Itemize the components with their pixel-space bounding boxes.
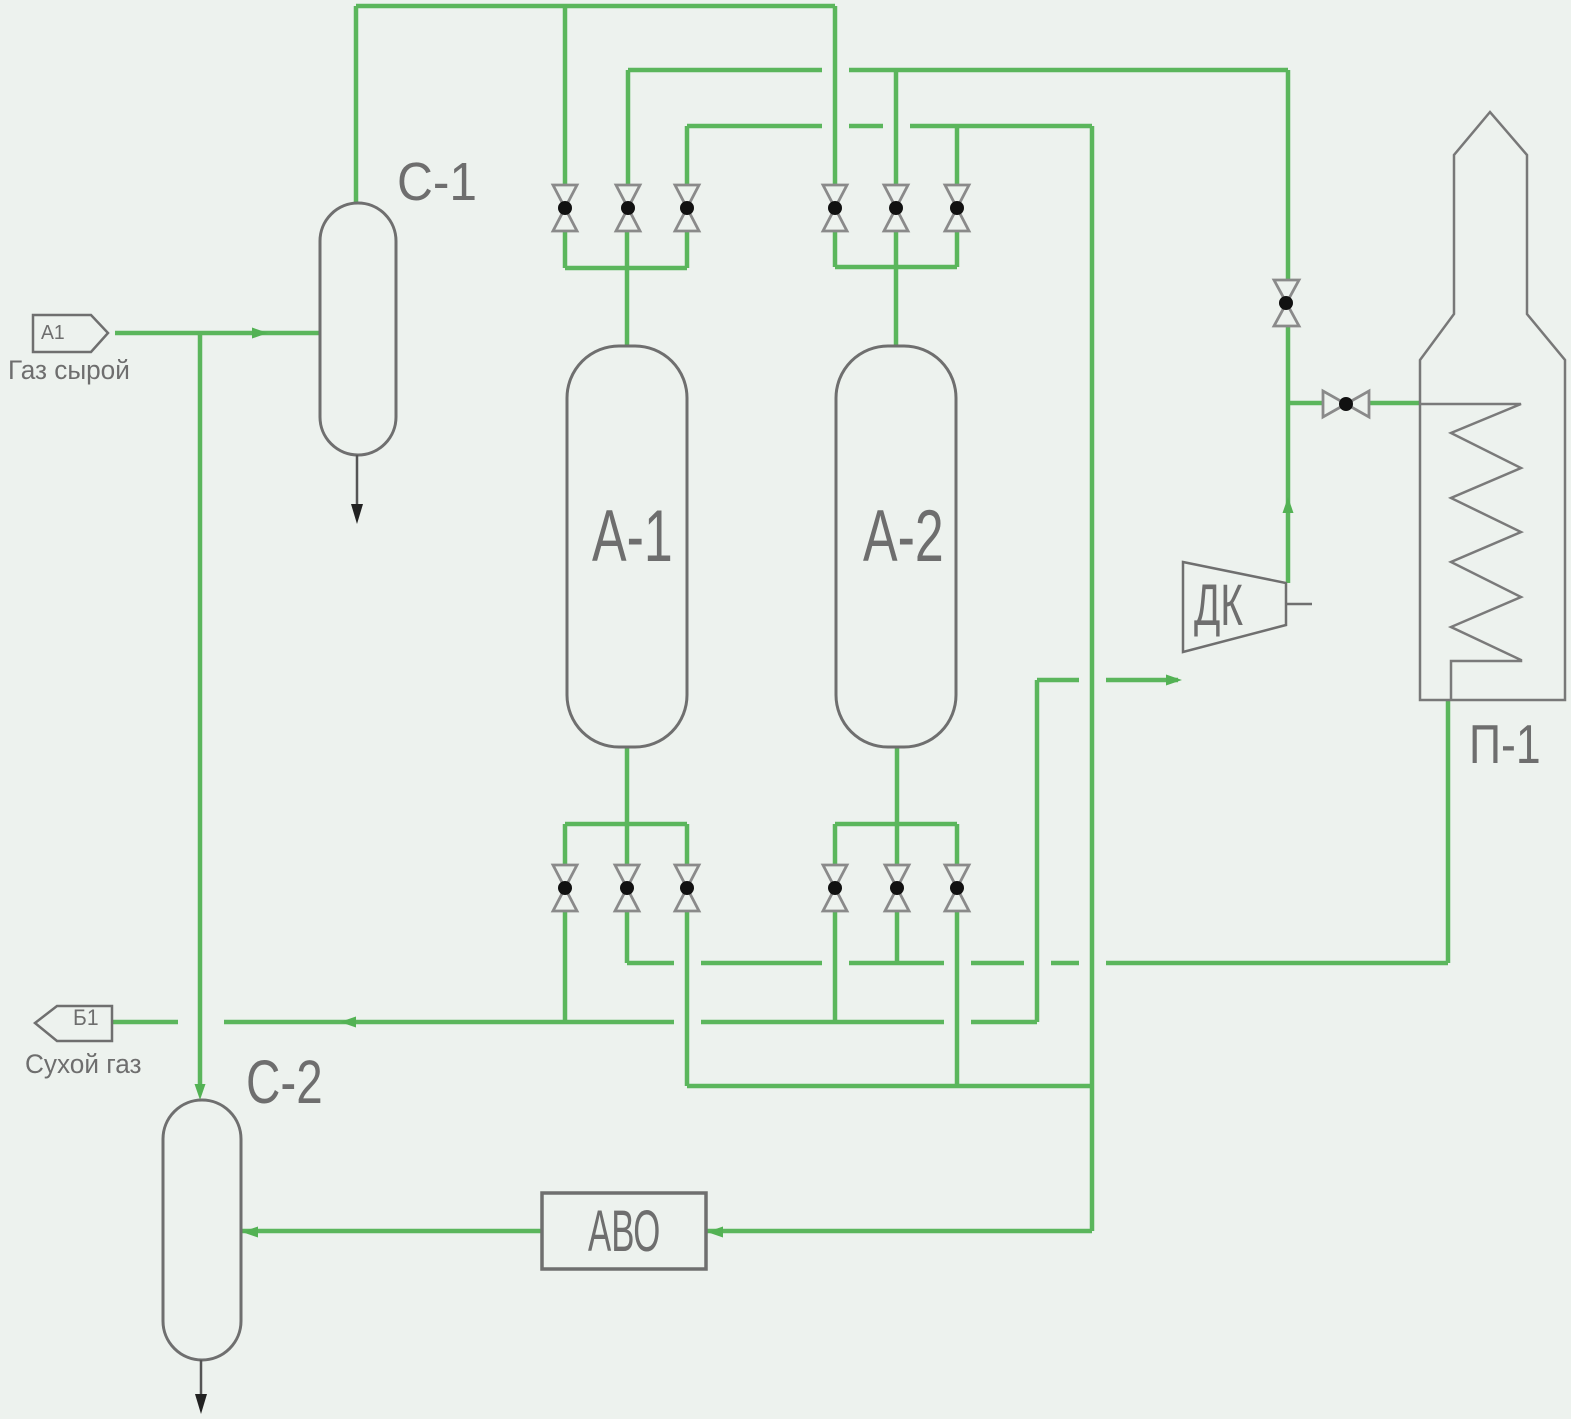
arrow right on A1 feed line xyxy=(252,328,268,339)
valve on furnace feed xyxy=(1323,391,1369,417)
wire A1 bottom valve2 drop to regen header xyxy=(625,911,630,963)
svg-text:Б1: Б1 xyxy=(73,1005,99,1031)
wire A-2 bottom manifold xyxy=(835,747,957,865)
svg-text:П-1: П-1 xyxy=(1469,714,1541,776)
arrow right into compressor suction xyxy=(1166,675,1182,686)
wire A-2 top manifold xyxy=(835,231,957,346)
wire header y70 from A1 valve2 to x1288 (break at 835) xyxy=(628,68,1288,73)
furnace П-1 outline xyxy=(1420,112,1565,700)
wire dry gas header y1022 (breaks at 200,687,957) xyxy=(112,1020,1037,1025)
valve A2 top 1 xyxy=(823,185,847,231)
wire long drop x1092 from y126 to ABO corner y1231 xyxy=(1090,126,1095,1231)
wire A-1 top manifold xyxy=(565,231,687,346)
svg-text:А1: А1 xyxy=(41,322,65,344)
wire A1 bottom valve3 drop to ABO header xyxy=(685,911,690,1086)
arrow down into C-2 top xyxy=(195,1084,206,1100)
vessel C-2 xyxy=(163,1100,241,1360)
wire A2 bottom valve2 drop to regen header xyxy=(895,911,900,963)
compressor DK body xyxy=(1183,562,1286,652)
wire A1 feed line y333 xyxy=(115,331,320,336)
valve dot furnace feed xyxy=(1339,397,1353,411)
svg-text:АВО: АВО xyxy=(588,1200,660,1264)
C-1 drain arrow xyxy=(351,504,363,524)
vessel A-1 xyxy=(567,346,687,747)
flag A1 xyxy=(33,315,108,352)
valve A2 bottom 2 xyxy=(885,865,909,911)
wire C-1 top riser x356 xyxy=(354,6,359,203)
valve A2 top 3 xyxy=(945,185,969,231)
wire riser x957 to A2 top valve3 xyxy=(955,126,960,185)
svg-text:Сухой газ: Сухой газ xyxy=(25,1049,141,1079)
svg-text:ДК: ДК xyxy=(1194,573,1243,638)
wire A2 bottom valve3 drop to ABO header xyxy=(955,911,960,1086)
vessel A-2 xyxy=(836,346,956,747)
arrow up on compressor discharge xyxy=(1283,497,1294,513)
valve A1 top 3 xyxy=(675,185,699,231)
C-2 drain arrow xyxy=(195,1394,207,1414)
svg-text:Газ сырой: Газ сырой xyxy=(8,355,130,385)
valve A2 top 2 xyxy=(884,185,908,231)
ABO box xyxy=(542,1193,706,1269)
valve dot discharge xyxy=(1279,296,1293,310)
valve A1 top 1 xyxy=(553,185,577,231)
wire riser x896 to A2 top valve2 xyxy=(894,70,899,185)
wire A2 bottom valve1 drop to dry-gas header xyxy=(833,911,838,1022)
wire top header y6 from C-1 to A-2 valve 1 xyxy=(356,4,835,9)
furnace coil xyxy=(1420,404,1521,700)
arrow left on dry gas header xyxy=(340,1017,356,1028)
C-1 drain line xyxy=(356,455,359,506)
wire riser x565 to A1 top valve1 xyxy=(563,6,568,185)
wire riser x687 to A1 top valve3 xyxy=(685,126,690,185)
wire drop x200 from feed tee to C-2 top xyxy=(198,333,203,1088)
valve A2 bottom 1 xyxy=(823,865,847,911)
C-2 drain line xyxy=(200,1360,203,1396)
wire compressor suction y680 (break at 1092) xyxy=(1037,678,1178,683)
valve A1 top 2 xyxy=(616,185,640,231)
svg-text:А-2: А-2 xyxy=(863,496,944,577)
wire П-1 outlet drop x1448 xyxy=(1446,701,1451,963)
wire ABO inlet y1231 from x1092 xyxy=(706,1229,1092,1234)
wire regen header y963 from x627 to П-1 drop (breaks at 687,835,957,1037,1092) xyxy=(627,961,1448,966)
svg-text:А-1: А-1 xyxy=(592,496,673,577)
wire riser x1037 to compressor suction xyxy=(1035,680,1040,1022)
wire to furnace y403 xyxy=(1288,401,1420,406)
valve A1 bottom 3 xyxy=(675,865,699,911)
compressor shaft xyxy=(1286,603,1312,606)
wire compressor discharge riser x1288 xyxy=(1286,70,1291,583)
wire header y126 from A1 valve3 to x1092 (breaks at 835,896) xyxy=(687,124,1092,129)
valve A1 bottom 2 xyxy=(615,865,639,911)
flag Б1 xyxy=(35,1006,112,1041)
wire A-1 bottom manifold xyxy=(565,747,687,865)
valve dots bottom row xyxy=(558,881,572,895)
arrow left into C-2 side xyxy=(242,1227,258,1238)
arrow left into ABO xyxy=(707,1227,723,1238)
wire A1 bottom valve1 drop to dry-gas header xyxy=(563,911,568,1022)
wire ABO feed header y1086 xyxy=(687,1084,1092,1089)
wire drop x835 to A2 top valve1 xyxy=(833,6,838,185)
valve on discharge riser xyxy=(1274,280,1299,326)
vessel C-1 xyxy=(320,203,396,455)
svg-text:С-1: С-1 xyxy=(397,151,477,211)
wire ABO outlet y1231 to C-2 xyxy=(241,1229,542,1234)
valve A1 bottom 1 xyxy=(553,865,577,911)
valve dots top row xyxy=(558,201,572,215)
wire riser x628 to A1 top valve2 xyxy=(626,70,631,185)
svg-text:С-2: С-2 xyxy=(246,1047,323,1116)
valve A2 bottom 3 xyxy=(945,865,969,911)
